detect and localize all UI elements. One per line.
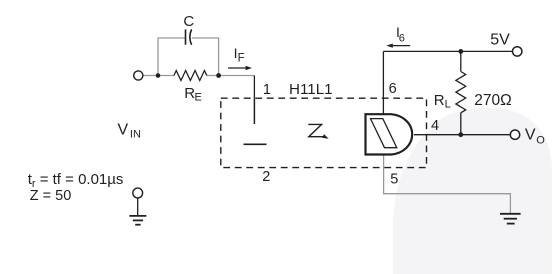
node C junction dot at 5V rail bbox=[458, 49, 463, 54]
svg-text:L: L bbox=[445, 98, 451, 110]
wire pin 5 to ground bbox=[384, 155, 511, 214]
current arrow I6 bbox=[392, 45, 410, 47]
svg-text:V: V bbox=[118, 122, 129, 139]
optical coupling arrow Z bbox=[308, 124, 323, 136]
ground left bbox=[129, 215, 146, 217]
resistor RL bottom lead bbox=[460, 113, 462, 135]
svg-text:5V: 5V bbox=[490, 32, 510, 49]
svg-text:V: V bbox=[525, 127, 536, 144]
svg-text:IN: IN bbox=[130, 128, 141, 140]
input terminal circle bbox=[134, 71, 143, 80]
svg-text:4: 4 bbox=[431, 118, 439, 134]
node D junction dot at output bbox=[458, 132, 463, 137]
svg-text:6: 6 bbox=[399, 32, 405, 44]
node B junction dot bbox=[216, 73, 221, 78]
wire input to node A bbox=[143, 75, 158, 77]
svg-text:O: O bbox=[536, 134, 545, 146]
current arrow IF bbox=[228, 67, 246, 69]
ground right bbox=[500, 213, 521, 215]
dashed package outline H11L1 bbox=[221, 98, 427, 167]
svg-text:2: 2 bbox=[262, 169, 270, 185]
wire node A to resistor RE bbox=[158, 75, 174, 77]
resistor RL zigzag bbox=[456, 72, 466, 113]
LED anode lead bbox=[253, 98, 255, 124]
5V terminal circle bbox=[513, 47, 522, 56]
svg-text:E: E bbox=[195, 92, 202, 104]
wire node A up to capacitor left bbox=[158, 38, 185, 76]
svg-text:F: F bbox=[238, 53, 245, 65]
wire pin 1 vertical into package bbox=[253, 76, 255, 99]
svg-text:Z = 50: Z = 50 bbox=[30, 188, 72, 204]
schmitt trigger gate U1 outline bbox=[366, 114, 413, 154]
source return stem wire bbox=[137, 198, 139, 216]
svg-text:C: C bbox=[183, 13, 194, 30]
svg-text:H11L1: H11L1 bbox=[289, 81, 333, 98]
VO terminal circle bbox=[510, 130, 519, 139]
svg-text:R: R bbox=[434, 92, 445, 109]
node A junction dot bbox=[156, 73, 161, 78]
resistor RE zigzag bbox=[174, 71, 207, 81]
5V supply rail wire bbox=[383, 50, 512, 52]
wire node B to pin 1 corner bbox=[219, 75, 255, 77]
resistor RL top lead bbox=[460, 51, 462, 71]
wire resistor RE to node B bbox=[207, 75, 219, 77]
wire capacitor right down to node B bbox=[192, 38, 219, 74]
capacitor C1 curved plate bbox=[190, 29, 192, 44]
svg-text:1: 1 bbox=[263, 82, 271, 98]
svg-text:5: 5 bbox=[390, 171, 398, 187]
watermark bbox=[393, 108, 552, 274]
hysteresis symbol bbox=[371, 119, 397, 148]
pin 6 wire from gate to 5V rail bbox=[382, 51, 384, 114]
capacitor C1 flat plate bbox=[185, 29, 187, 44]
LED cathode bar bbox=[244, 143, 267, 145]
pin 4 output wire to VO bbox=[414, 134, 510, 136]
source return terminal circle bbox=[133, 188, 143, 198]
svg-text:6: 6 bbox=[389, 81, 397, 97]
svg-text:270Ω: 270Ω bbox=[474, 92, 511, 109]
